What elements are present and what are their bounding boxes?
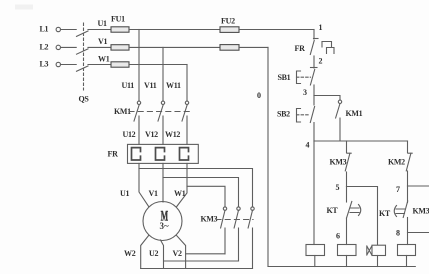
svg-text:3~: 3~ [160, 221, 170, 231]
svg-text:7: 7 [396, 185, 400, 194]
wire FU2 to node 0 line [239, 46, 268, 48]
motor M 3~ [143, 202, 182, 241]
svg-text:SB2: SB2 [277, 110, 290, 119]
wire L3 to fuse [88, 64, 111, 66]
time relay KT delayed NC contact [327, 187, 361, 245]
wire L1 fuse to FU2 [129, 29, 220, 31]
wire node4 rail [314, 140, 408, 142]
coil KM2 [338, 245, 357, 267]
wire motor V2 leg [176, 235, 185, 268]
svg-text:V2: V2 [173, 249, 182, 258]
wire loop A U1 to KM3 c3 [139, 169, 253, 207]
wire node5 rail [347, 187, 378, 245]
svg-text:L3: L3 [40, 60, 49, 69]
svg-text:KM3: KM3 [330, 158, 347, 167]
svg-text:U12: U12 [123, 130, 136, 139]
wire loop B V1 to KM3 c2 [163, 178, 239, 207]
wire L3 fuse to corner [129, 64, 187, 66]
svg-text:SB1: SB1 [278, 73, 291, 82]
coil KM3 [398, 245, 416, 267]
svg-text:0: 0 [257, 91, 261, 100]
svg-text:QS: QS [79, 95, 90, 104]
wire W11 column [186, 65, 188, 102]
smudge artifact [15, 5, 33, 10]
switch QS [77, 23, 90, 104]
wire control drop [313, 30, 315, 40]
svg-text:U1: U1 [98, 19, 107, 28]
wire star bus W2 [141, 268, 253, 270]
wire loop C W1 to KM3 c1 [187, 186, 225, 206]
node L2 [40, 43, 77, 52]
svg-text:2: 2 [319, 57, 323, 66]
node L1 [40, 25, 77, 34]
node L3 [40, 60, 77, 69]
wire W column below FR [177, 163, 188, 206]
wire node 0 vertical [267, 47, 269, 266]
thermal relay FR NC contact [295, 39, 335, 69]
svg-text:W2: W2 [124, 249, 136, 258]
svg-text:W1: W1 [174, 189, 186, 198]
svg-text:U1: U1 [120, 189, 129, 198]
wire U column below FR [139, 163, 149, 206]
wire node8 rail [408, 232, 429, 234]
contactor KM1 main contacts [114, 101, 192, 144]
svg-text:KM3: KM3 [413, 207, 429, 216]
fuse FU2 [220, 17, 239, 51]
svg-text:KT: KT [327, 206, 339, 215]
svg-text:8: 8 [396, 229, 400, 238]
contactor KM3 NC interlock [330, 141, 352, 187]
svg-text:6: 6 [336, 232, 340, 241]
wire motor U2 leg [161, 240, 164, 269]
wire V column below FR [162, 163, 164, 202]
svg-text:L2: L2 [40, 43, 49, 52]
svg-text:V1: V1 [149, 189, 158, 198]
svg-text:FU1: FU1 [111, 15, 125, 24]
svg-text:4: 4 [306, 141, 310, 150]
svg-text:KM1: KM1 [346, 109, 363, 118]
wire motor W2 leg [141, 235, 149, 268]
wire U2 to KM3 c2 bottom [164, 260, 239, 262]
wire L2 fuse to FU2 [129, 46, 220, 48]
wire V11 column [162, 47, 164, 101]
contactor KM3 main contacts [201, 207, 255, 269]
svg-text:U11: U11 [122, 81, 135, 90]
time relay KT delayed NO contact [379, 186, 408, 245]
svg-text:W11: W11 [166, 81, 181, 90]
wire node7 rail [408, 185, 429, 187]
svg-text:KM2: KM2 [388, 158, 405, 167]
wire FU2 to control line [239, 29, 314, 31]
contactor KM3 aux contact label clipped [413, 207, 429, 216]
svg-text:V11: V11 [144, 81, 157, 90]
contactor KM1 aux contact [336, 100, 363, 141]
svg-text:5: 5 [336, 183, 340, 192]
svg-text:V1: V1 [98, 37, 107, 46]
wire V2 to KM3 c1 bottom [186, 253, 225, 255]
svg-text:L1: L1 [40, 25, 49, 34]
wire L1 to fuse [88, 29, 111, 31]
svg-text:FU2: FU2 [221, 17, 235, 26]
wire U11 column [138, 30, 140, 102]
contactor KM2 NC interlock [388, 141, 412, 186]
svg-text:KT: KT [379, 209, 391, 218]
svg-text:W1: W1 [98, 55, 110, 64]
svg-text:W12: W12 [165, 130, 180, 139]
pushbutton SB1 stop [278, 68, 318, 96]
svg-text:KM3: KM3 [201, 215, 218, 224]
thermal relay FR heater box [108, 144, 199, 163]
wire control bottom bus [268, 266, 415, 268]
pushbutton SB2 start [277, 96, 315, 142]
wire L2 to fuse [88, 46, 111, 48]
wire node3 branch [314, 96, 340, 101]
svg-text:1: 1 [319, 23, 323, 32]
svg-text:FR: FR [295, 44, 306, 53]
svg-text:FR: FR [108, 150, 119, 159]
coil KM1 [306, 141, 325, 267]
svg-text:V12: V12 [145, 130, 158, 139]
svg-text:U2: U2 [149, 249, 158, 258]
fuse FU1 [111, 15, 129, 68]
coil KT [367, 245, 386, 266]
svg-text:3: 3 [303, 88, 307, 97]
